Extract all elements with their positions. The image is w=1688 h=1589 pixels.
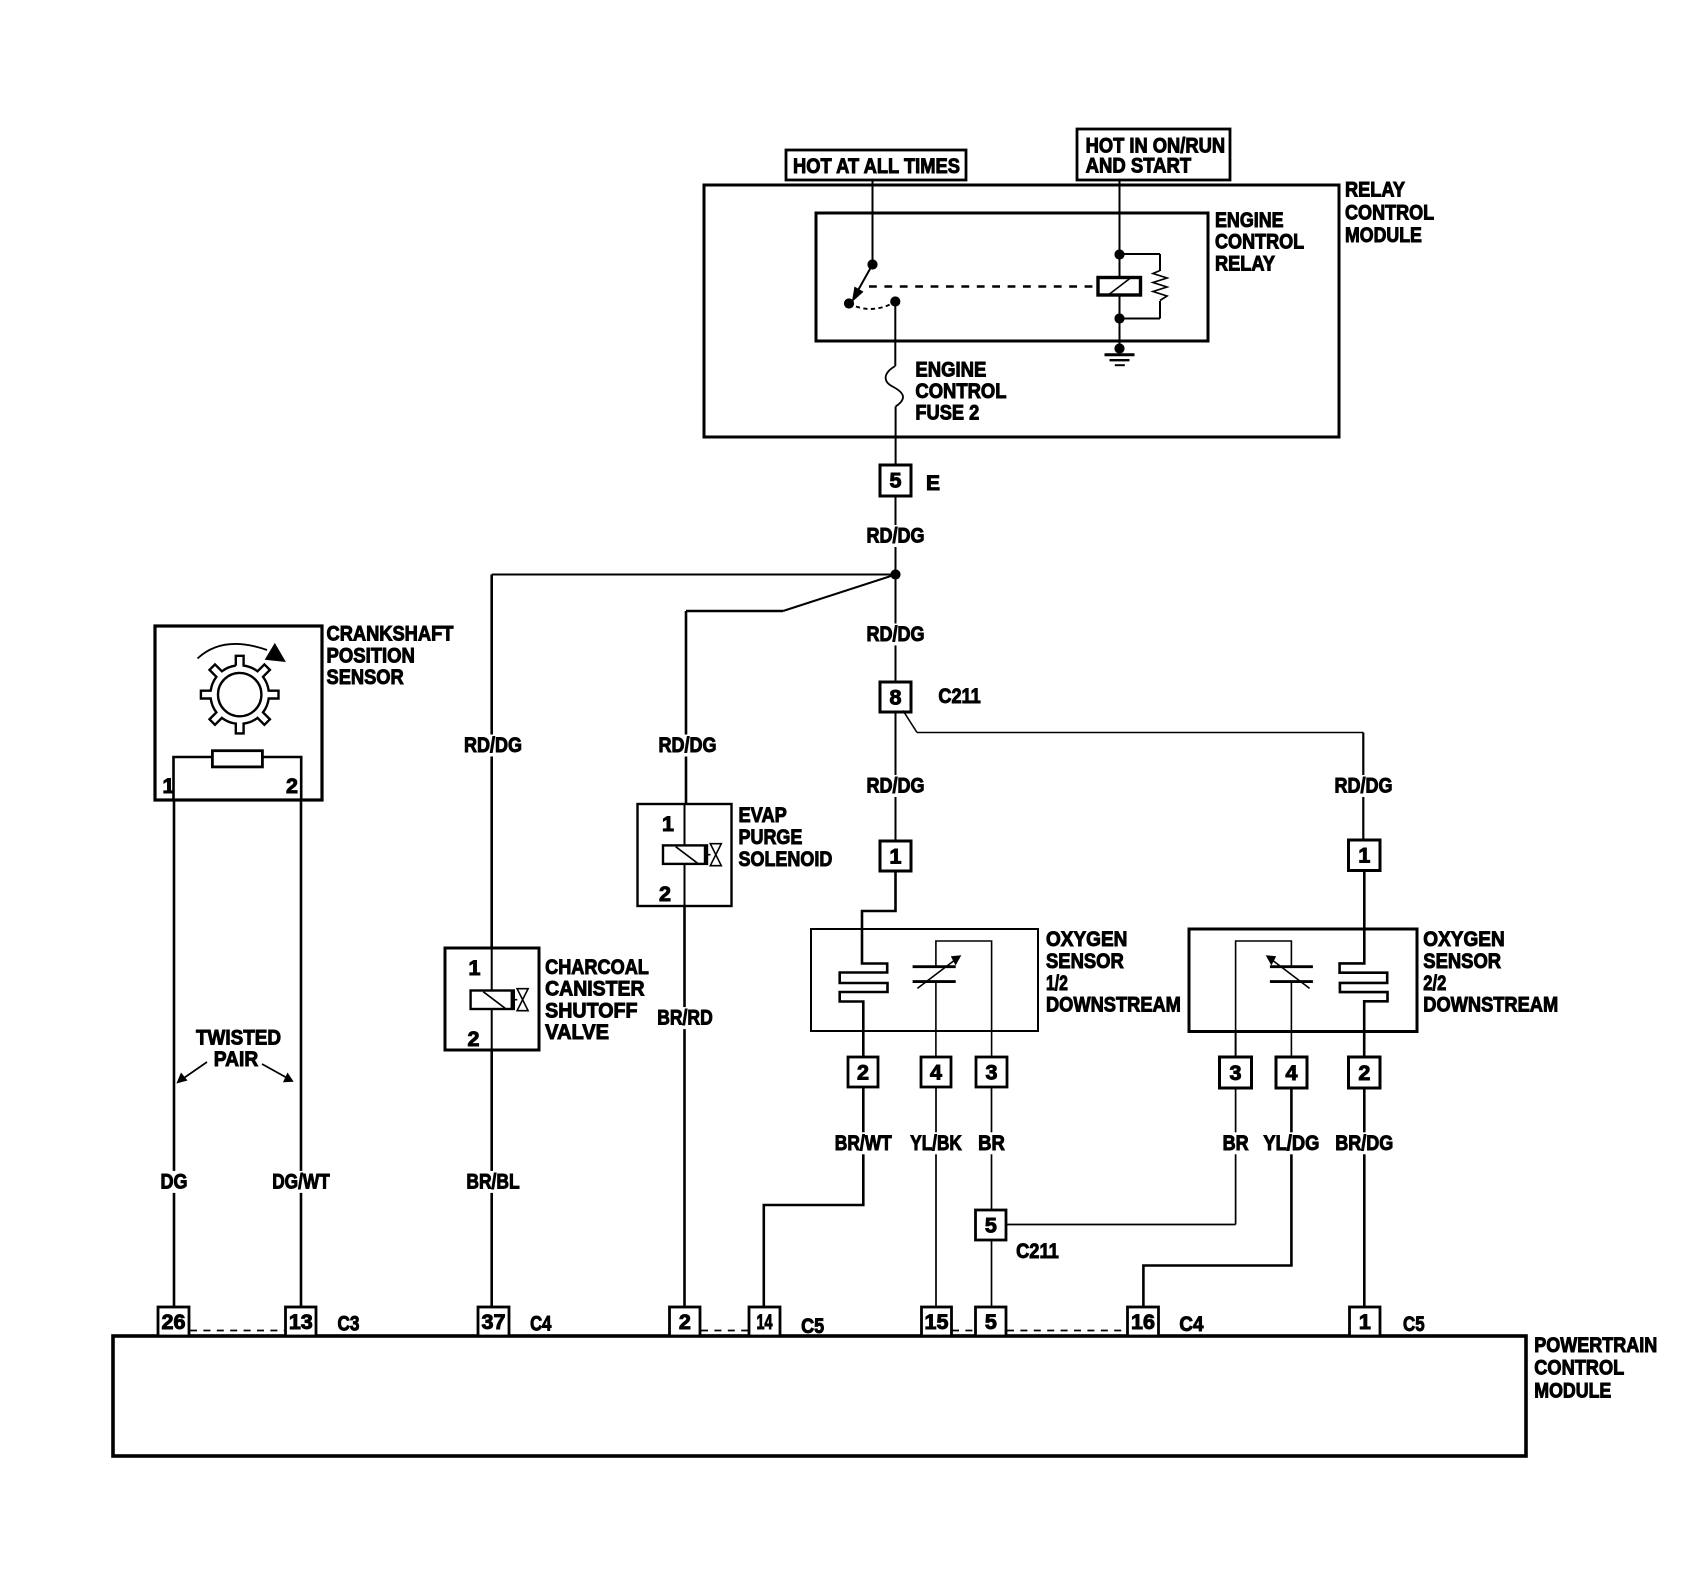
- svg-text:4: 4: [1286, 1061, 1298, 1085]
- svg-text:1: 1: [1359, 1310, 1371, 1334]
- svg-text:OXYGEN: OXYGEN: [1423, 927, 1504, 951]
- svg-text:14: 14: [757, 1310, 773, 1334]
- svg-text:CRANKSHAFT: CRANKSHAFT: [327, 622, 454, 646]
- svg-text:2: 2: [468, 1027, 480, 1051]
- svg-text:2: 2: [1358, 1061, 1370, 1085]
- svg-text:PAIR: PAIR: [214, 1047, 259, 1071]
- svg-text:FUSE 2: FUSE 2: [915, 401, 979, 425]
- svg-text:DOWNSTREAM: DOWNSTREAM: [1046, 993, 1181, 1017]
- svg-text:1: 1: [1358, 844, 1370, 868]
- svg-text:CONTROL: CONTROL: [1534, 1356, 1624, 1380]
- svg-text:C5: C5: [801, 1314, 824, 1338]
- svg-text:5: 5: [890, 469, 902, 493]
- svg-text:8: 8: [890, 686, 902, 710]
- svg-text:BR/RD: BR/RD: [657, 1006, 713, 1030]
- svg-text:C5: C5: [1403, 1312, 1425, 1336]
- svg-text:15: 15: [925, 1310, 949, 1334]
- svg-text:CONTROL: CONTROL: [1345, 200, 1434, 224]
- svg-text:CONTROL: CONTROL: [915, 379, 1006, 403]
- svg-text:SHUTOFF: SHUTOFF: [545, 998, 637, 1022]
- svg-text:5: 5: [985, 1214, 997, 1238]
- svg-text:RD/DG: RD/DG: [867, 524, 925, 548]
- svg-text:C3: C3: [338, 1312, 360, 1336]
- svg-text:EVAP: EVAP: [739, 803, 787, 827]
- svg-text:3: 3: [1230, 1061, 1242, 1085]
- svg-text:RD/DG: RD/DG: [867, 774, 925, 798]
- svg-text:DG/WT: DG/WT: [272, 1169, 330, 1193]
- svg-text:POSITION: POSITION: [327, 643, 415, 667]
- svg-text:1/2: 1/2: [1046, 971, 1068, 995]
- svg-text:BR/WT: BR/WT: [835, 1131, 892, 1155]
- svg-text:DG: DG: [161, 1169, 188, 1193]
- svg-text:MODULE: MODULE: [1345, 223, 1422, 247]
- svg-text:CONTROL: CONTROL: [1215, 230, 1304, 254]
- svg-text:BR: BR: [978, 1131, 1005, 1155]
- svg-text:BR: BR: [1223, 1131, 1249, 1155]
- svg-text:BR/BL: BR/BL: [466, 1169, 519, 1193]
- svg-text:RD/DG: RD/DG: [867, 622, 925, 646]
- svg-text:YL/BK: YL/BK: [910, 1131, 962, 1155]
- svg-text:RD/DG: RD/DG: [659, 733, 717, 757]
- svg-text:37: 37: [482, 1310, 506, 1334]
- svg-text:RD/DG: RD/DG: [464, 733, 522, 757]
- svg-text:2: 2: [857, 1061, 869, 1085]
- svg-text:RELAY: RELAY: [1215, 251, 1275, 275]
- svg-text:AND START: AND START: [1086, 154, 1192, 178]
- svg-text:13: 13: [289, 1310, 313, 1334]
- svg-text:SENSOR: SENSOR: [327, 665, 405, 689]
- svg-text:SOLENOID: SOLENOID: [739, 847, 833, 871]
- svg-text:CANISTER: CANISTER: [545, 977, 645, 1001]
- svg-text:2: 2: [659, 882, 671, 906]
- svg-text:1: 1: [662, 812, 674, 836]
- svg-text:4: 4: [930, 1061, 942, 1085]
- svg-text:1: 1: [890, 845, 902, 869]
- svg-text:1: 1: [469, 956, 481, 980]
- svg-text:SENSOR: SENSOR: [1423, 949, 1501, 973]
- svg-text:DOWNSTREAM: DOWNSTREAM: [1423, 993, 1558, 1017]
- svg-text:2/2: 2/2: [1423, 971, 1446, 995]
- svg-text:POWERTRAIN: POWERTRAIN: [1534, 1333, 1657, 1357]
- svg-text:5: 5: [985, 1310, 997, 1334]
- svg-text:PURGE: PURGE: [739, 825, 803, 849]
- svg-text:YL/DG: YL/DG: [1263, 1131, 1319, 1155]
- svg-text:BR/DG: BR/DG: [1335, 1131, 1393, 1155]
- svg-text:ENGINE: ENGINE: [1215, 208, 1284, 232]
- svg-text:16: 16: [1131, 1310, 1155, 1334]
- svg-text:VALVE: VALVE: [545, 1020, 609, 1044]
- svg-text:SENSOR: SENSOR: [1046, 949, 1124, 973]
- svg-text:CHARCOAL: CHARCOAL: [545, 955, 649, 979]
- svg-text:E: E: [926, 471, 940, 495]
- svg-text:MODULE: MODULE: [1534, 1378, 1611, 1402]
- svg-text:C4: C4: [1179, 1312, 1203, 1336]
- svg-text:C4: C4: [530, 1312, 551, 1336]
- svg-text:C211: C211: [1016, 1239, 1059, 1263]
- svg-text:3: 3: [986, 1061, 998, 1085]
- svg-text:RD/DG: RD/DG: [1335, 774, 1393, 798]
- svg-text:HOT AT ALL TIMES: HOT AT ALL TIMES: [793, 154, 960, 178]
- svg-text:C211: C211: [938, 684, 980, 708]
- svg-text:26: 26: [162, 1310, 186, 1334]
- svg-text:2: 2: [286, 774, 298, 798]
- svg-text:1: 1: [163, 774, 175, 798]
- svg-text:OXYGEN: OXYGEN: [1046, 927, 1127, 951]
- svg-text:ENGINE: ENGINE: [915, 357, 986, 381]
- svg-text:TWISTED: TWISTED: [196, 1025, 281, 1049]
- svg-text:2: 2: [679, 1310, 691, 1334]
- svg-text:RELAY: RELAY: [1345, 178, 1405, 202]
